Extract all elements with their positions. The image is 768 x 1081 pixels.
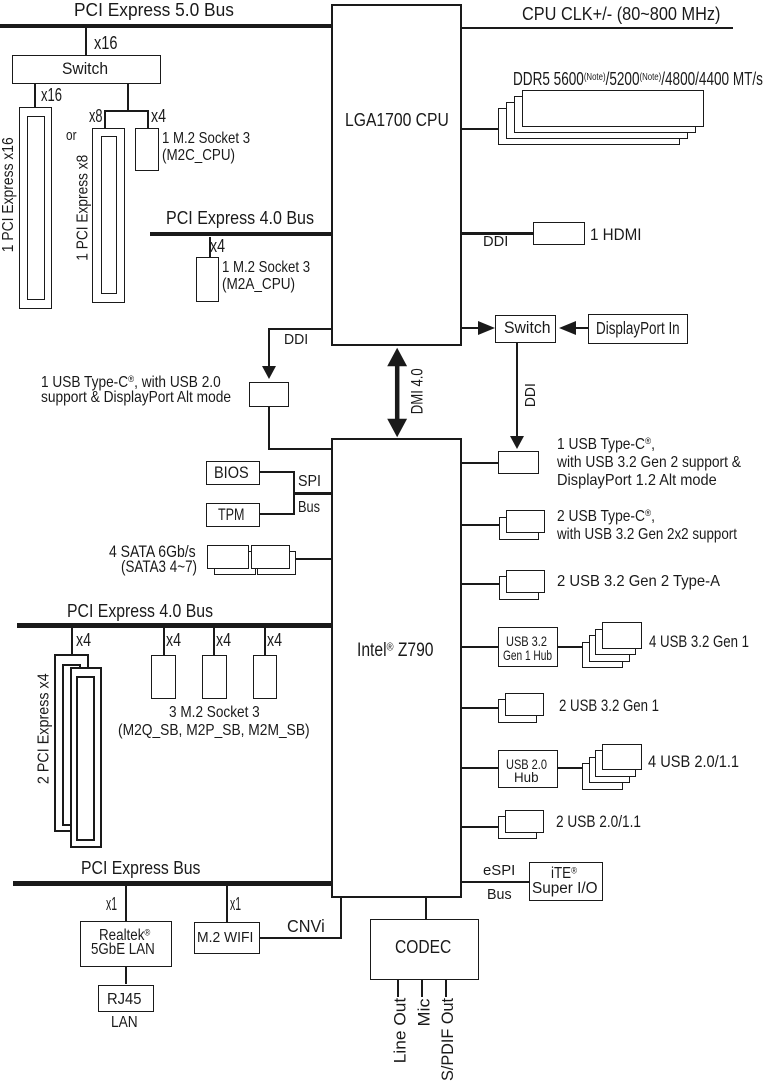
- wire CPU DDI left: [268, 328, 332, 330]
- chipset box Intel Z790: [331, 438, 462, 898]
- label usbr1-l2: [557, 455, 768, 471]
- BIOS box: [206, 461, 260, 485]
- M.2 socket M2C_CPU box: [135, 128, 159, 171]
- label ddi-left: [284, 333, 309, 347]
- USB Type-C (USB2.0+DP) box: [249, 382, 288, 408]
- HDMI port box: [533, 222, 586, 246]
- label usbr1-l1: [557, 437, 671, 453]
- wire tee to M2C socket: [147, 110, 149, 129]
- rotated label pcie-x8-label: [75, 155, 91, 261]
- label switch-r-label: [504, 320, 553, 337]
- label m2c-l2: [162, 148, 249, 164]
- label usbr6-l1: [648, 754, 751, 771]
- PCI Express 4.0 bus bar (CPU): [150, 232, 332, 237]
- USB 3.2 Gen1 shadow box: [498, 699, 537, 723]
- TPM box: [206, 503, 260, 527]
- label clk-title: [522, 5, 741, 23]
- label m2a-l1: [222, 260, 329, 276]
- label ddr-title: [513, 70, 768, 88]
- wire BIOS to SPI: [260, 471, 295, 473]
- wire bus4b to M2M: [264, 628, 266, 656]
- DisplayPort In box: [588, 314, 688, 343]
- SATA box A: [207, 545, 249, 570]
- wire Z790 to USB3.2 hub: [461, 646, 498, 648]
- PCIe x4 slot back outer: [54, 654, 89, 832]
- USB 3.2 Gen 1 Hub box: [498, 627, 558, 667]
- wire CPU to DDR5 DIMMs: [461, 128, 499, 130]
- wire Z790 to 2x USB2.0: [461, 826, 498, 828]
- PCI Express x16 slot outer: [19, 107, 52, 309]
- wire Z790 to USB3.2 gen2 typeA: [461, 583, 499, 585]
- wire switch to PCIe x16 slot: [34, 84, 36, 107]
- wire x8/x4 tee: [104, 110, 149, 112]
- rotated label spdif: [439, 998, 456, 1081]
- label spi-bus: [298, 500, 325, 516]
- wire CPU DDI to HDMI: [461, 232, 533, 235]
- label wifi-label: [197, 930, 258, 945]
- arrowhead into switch: [478, 321, 495, 335]
- rotated label ddi-rot: [524, 383, 538, 407]
- CNVi wire vert: [340, 897, 342, 939]
- label hdmi-label: [590, 226, 648, 243]
- DDR5 DIMM box 1: [522, 90, 704, 127]
- rotated label lineout: [391, 998, 408, 1064]
- label bus5-title: [74, 1, 240, 19]
- SATA shadow box B: [257, 551, 296, 576]
- PCI Express 4.0 bus bar (chipset): [17, 623, 332, 628]
- label x4-b4: [267, 631, 286, 649]
- label codec-label: [395, 938, 460, 956]
- USB Type-C 2x2 box: [506, 510, 545, 533]
- wire bus4b to M2P: [213, 628, 215, 656]
- display switch box: [495, 315, 556, 343]
- label lan-label: [111, 1015, 142, 1031]
- SATA box B: [251, 545, 290, 570]
- label x4-b1: [76, 631, 95, 649]
- label x16-a: [94, 34, 123, 52]
- switch box (PCIe 5.0): [12, 55, 161, 84]
- wire SPI vertical: [293, 471, 295, 516]
- wire Z790 to USB2 hub: [461, 767, 498, 769]
- arrowhead DDI into USB-C: [510, 436, 524, 449]
- label or: [66, 129, 79, 144]
- eSPI bus wire: [461, 881, 529, 883]
- label ite-l1: [551, 866, 581, 882]
- rotated label mic: [415, 999, 432, 1027]
- wire USB-C to Z790 horiz: [268, 448, 332, 450]
- USB Type-C (Gen2+DP1.2) box: [498, 451, 539, 474]
- label busp-title: [81, 859, 217, 877]
- PCIe x4 slot back inner: [62, 664, 81, 826]
- label m2c-l1: [162, 131, 269, 147]
- label usb2c-l1: [41, 375, 251, 391]
- USB Type-C 2x2 shadow box: [499, 517, 538, 540]
- wire to M.2 WIFI: [226, 886, 228, 922]
- label hub1-l1: [506, 634, 558, 648]
- label dpin-label: [596, 320, 705, 338]
- wire USB-C to Z790 vert: [268, 407, 270, 449]
- label m2sb-l1: [169, 705, 276, 721]
- USB 3.2 Gen1 port box 3: [589, 635, 630, 662]
- DDR5 DIMM box 3: [506, 102, 688, 139]
- label usbr3-l1: [557, 574, 733, 590]
- PCIe x4 slot front outer: [70, 667, 102, 848]
- M.2 socket M2P_SB box: [202, 655, 226, 699]
- label usbr2-l2: [557, 527, 768, 543]
- USB 3.2 Gen2 Type-A shadow box: [499, 576, 538, 599]
- label x16-b: [41, 86, 70, 104]
- label spi: [298, 474, 323, 490]
- arrowhead DP-in to switch: [559, 321, 576, 335]
- label espi: [483, 863, 516, 878]
- rotated label pcie-x16-label: [1, 137, 17, 252]
- label x4-b2: [166, 631, 185, 649]
- label usbr5-l1: [559, 698, 684, 715]
- wire Z790 to CODEC: [425, 897, 427, 919]
- rotated label dmi-label: [410, 368, 427, 414]
- label espi-bus: [487, 887, 513, 902]
- label usbr2-l1: [557, 509, 671, 525]
- wire switch DDI down: [516, 343, 518, 436]
- DMI 4.0 double arrow: [386, 347, 409, 438]
- USB 3.2 Gen1 box: [505, 693, 544, 716]
- wire DDI down to USB-C: [268, 328, 270, 367]
- wire codec line-out: [397, 980, 399, 997]
- USB 2.0 Hub box: [498, 750, 558, 789]
- wire Z790 to USB-C gen2: [461, 462, 498, 464]
- PCIe x4 slot front inner: [76, 676, 95, 841]
- USB 2.0 port box 1: [602, 744, 643, 771]
- wire codec spdif: [445, 980, 447, 997]
- label bus4b-title: [67, 602, 233, 620]
- SPI bus wire to Z790: [293, 492, 332, 494]
- arrowhead DDI into USB-C alt: [262, 366, 276, 379]
- label ddi-hdmi: [483, 235, 508, 249]
- label x1-a: [106, 895, 125, 913]
- wire hub1 to ports: [558, 646, 582, 648]
- label hub2-l2: [514, 770, 540, 784]
- DDR5 DIMM box 4: [498, 108, 680, 145]
- wire Z790 to 2x USB3.2 gen1: [461, 707, 498, 709]
- wire Z790 to USB-C 2x2: [461, 524, 499, 526]
- iTE Super I/O box: [529, 862, 603, 901]
- PCI Express x8 slot inner: [101, 136, 118, 295]
- label tpm-label: [218, 506, 254, 523]
- M.2 socket M2A_CPU box: [196, 257, 220, 302]
- wire bus4b to M2Q: [163, 628, 165, 656]
- label switch-tl-label: [62, 61, 111, 78]
- wire bus4 to M2A socket: [209, 237, 211, 258]
- label realtek-l1: [99, 928, 158, 944]
- wire TPM to SPI: [260, 513, 295, 515]
- RJ45 box: [98, 985, 154, 1012]
- label cnvi: [287, 918, 328, 936]
- label cpu-label: [345, 111, 464, 129]
- wire codec mic: [421, 980, 423, 997]
- label x1-b: [230, 895, 249, 913]
- USB 2.0 port box 3: [589, 757, 630, 784]
- label sata-l1: [109, 543, 214, 560]
- wire DisplayPort In to switch: [575, 327, 588, 329]
- wire Realtek to RJ45: [125, 967, 127, 985]
- USB 2.0 port box 2: [595, 750, 636, 777]
- wire bus5 to switch: [85, 28, 87, 55]
- wire SATA to Z790: [296, 558, 332, 560]
- label usbr7-l1: [556, 814, 659, 831]
- wire to Realtek LAN: [125, 886, 127, 921]
- USB 3.2 Gen1 port box 4: [582, 642, 623, 669]
- rotated label pcie-x4-label: [37, 673, 53, 784]
- CPU CLK wire: [461, 27, 733, 29]
- PCI Express x8 slot outer: [92, 128, 124, 303]
- CODEC box: [370, 919, 479, 980]
- wire switch right branch: [127, 84, 129, 112]
- label usbr1-l3: [557, 473, 732, 489]
- label usb2c-l2: [41, 390, 262, 406]
- label x4-b3: [216, 631, 235, 649]
- CPU box LGA1700: [331, 4, 462, 346]
- label usbr4-l1: [649, 634, 768, 651]
- label x4-m2a: [210, 237, 229, 255]
- label m2a-l2: [222, 277, 308, 293]
- label sata-l2: [121, 558, 217, 575]
- M.2 socket M2M_SB box: [253, 655, 277, 699]
- PCI Express bus bar: [13, 881, 331, 886]
- label x8: [89, 107, 108, 125]
- label hub2-l1: [506, 757, 558, 771]
- label bus4-title: [166, 209, 332, 227]
- USB 2.0 port box 4: [582, 763, 623, 790]
- wire hub2 to ports: [558, 767, 582, 769]
- label m2sb-l2: [118, 723, 340, 739]
- SATA shadow box A: [214, 551, 256, 576]
- Realtek 5GbE LAN box: [80, 921, 172, 967]
- label x4-m2c: [151, 107, 170, 125]
- USB 3.2 Gen1 port box 1: [602, 622, 643, 649]
- label realtek-l2: [91, 942, 165, 958]
- wire CPU to display switch: [461, 327, 480, 329]
- wire tee to PCIe x8 slot: [104, 110, 106, 128]
- USB 3.2 Gen2 Type-A box: [506, 570, 545, 593]
- DDR5 DIMM box 2: [514, 96, 696, 133]
- label ite-l2: [532, 881, 598, 897]
- USB 2.0 shadow box: [498, 816, 537, 840]
- label rj45-label: [107, 992, 143, 1008]
- wire bus4b to PCIe x4 slots: [71, 628, 73, 655]
- label bios-label: [214, 464, 255, 481]
- M.2 socket M2Q_SB box: [151, 655, 176, 699]
- USB 2.0 box: [505, 810, 544, 833]
- USB 3.2 Gen1 port box 2: [595, 629, 636, 656]
- PCI Express 5.0 bus bar: [0, 24, 331, 28]
- label hub1-l2: [503, 648, 571, 662]
- label z790-label: [357, 641, 450, 660]
- CNVi wire horiz: [260, 937, 343, 939]
- M.2 WIFI box: [194, 922, 260, 954]
- PCI Express x16 slot inner: [27, 116, 46, 301]
